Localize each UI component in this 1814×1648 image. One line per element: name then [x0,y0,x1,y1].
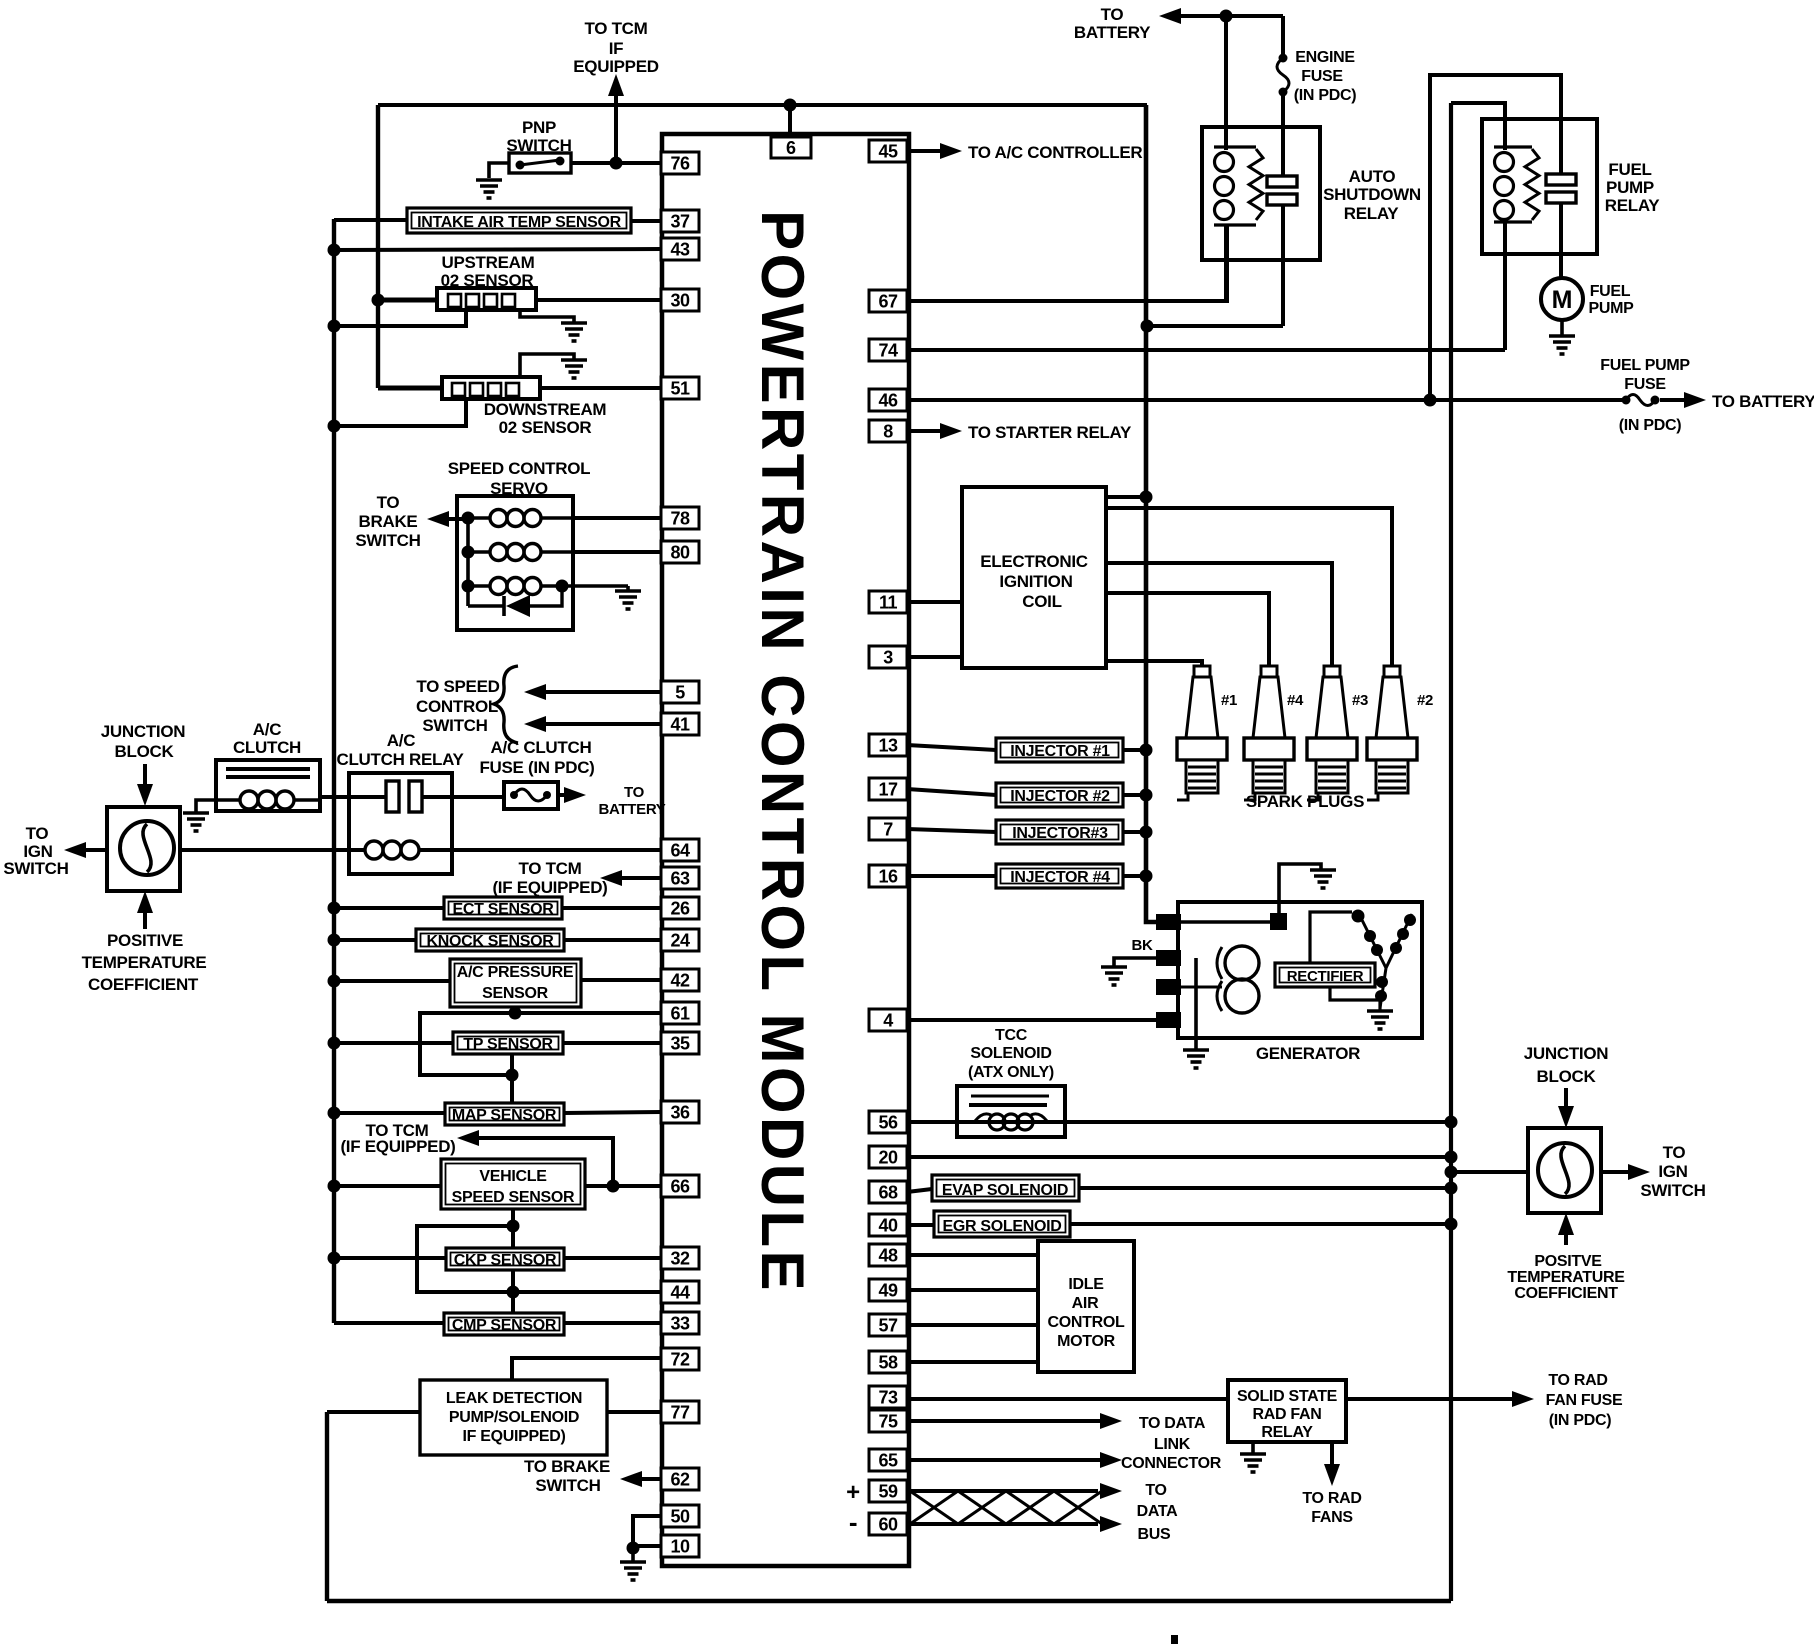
svg-text:62: 62 [670,1470,690,1490]
engine fuse [1277,54,1289,97]
wire CKP to CMP vertical [511,1270,515,1313]
label TO BRAKE SWITCH [355,493,420,550]
svg-text:POWERTRAIN CONTROL MODULE: POWERTRAIN CONTROL MODULE [749,210,816,1294]
svg-text:46: 46 [878,391,898,411]
svg-text:AUTO: AUTO [1349,167,1396,186]
PCM pin 16 [869,865,907,887]
PCM pin 72 [661,1348,699,1370]
svg-text:3: 3 [883,648,893,668]
wire A/C pressure to bus [328,975,451,988]
wire to speed control switch (pin 5) [524,684,661,700]
PCM pin 61 [661,1002,699,1024]
svg-text:UPSTREAM: UPSTREAM [442,253,535,272]
label TO A/C CONTROLLER [968,143,1142,162]
svg-text:FANS: FANS [1311,1509,1353,1526]
node 56/ign bus junction [1445,1116,1458,1129]
PCM pin 80 [661,541,699,563]
wire pin 75 to data link connector [907,1413,1122,1429]
wire pins 50/10 to ground [633,1516,661,1548]
label #1 [1221,692,1237,709]
PCM pin 65 [869,1449,907,1471]
PCM pin 43 [661,238,699,260]
wire injector #2 to bus [1123,789,1153,802]
label TO BRAKE SWITCH at pin 62 [524,1457,610,1495]
PCM pin 30 [661,289,699,311]
svg-text:MAP SENSOR: MAP SENSOR [452,1107,557,1124]
ground (BK) [1101,967,1127,985]
svg-text:65: 65 [878,1451,898,1471]
svg-text:POSITIVE: POSITIVE [107,931,183,950]
node pin43/bus junction [328,244,341,257]
ground (rad fan relay) [1240,1454,1266,1472]
svg-text:58: 58 [878,1353,898,1373]
label POSITVE TEMPERATURE COEFFICIENT (right) [1507,1253,1625,1302]
label (IN PDC) right [1619,417,1681,434]
svg-text:37: 37 [670,212,690,232]
svg-text:50: 50 [670,1507,690,1527]
svg-text:ECT SENSOR: ECT SENSOR [452,901,554,918]
EGR solenoid [934,1211,1070,1237]
wire upstream O2 to supply [378,298,437,303]
wire knock to pin 24 [564,938,661,942]
wire pin 72 to leak detection pump [512,1358,661,1380]
label FUEL PUMP [1588,283,1634,317]
svg-text:41: 41 [670,715,690,735]
wire junction block to ign switch (right) [1601,1164,1650,1180]
svg-text:SOLID STATE: SOLID STATE [1237,1388,1338,1405]
label DOWNSTREAM 02 SENSOR [484,400,607,437]
PCM pin 33 [661,1312,699,1334]
svg-text:73: 73 [878,1388,898,1408]
svg-text:BLOCK: BLOCK [1537,1067,1597,1086]
svg-text:LEAK DETECTION: LEAK DETECTION [446,1390,582,1407]
wire A/C pressure to pin 42 [581,978,661,982]
svg-text:72: 72 [670,1350,690,1370]
A/C clutch relay contacts [386,781,422,812]
wire EGR to ign bus [1070,1222,1451,1226]
speed control servo box [457,496,573,630]
svg-text:DATA: DATA [1137,1503,1179,1520]
wire pin 74 to fuel pump relay coil [907,348,1505,352]
PCM pin 8 [869,420,907,442]
node junction-block feed [1445,1166,1458,1179]
svg-text:CONTROL: CONTROL [1047,1314,1125,1331]
svg-text:SWITCH: SWITCH [535,1476,600,1495]
wire ignition coil to ASD bus [1106,495,1146,499]
svg-text:TO: TO [1663,1143,1686,1162]
wire ign bus to junction block (right) [1451,1170,1528,1174]
wire ECT to pin 26 [562,906,661,910]
PCM pin 75 [869,1410,907,1432]
svg-text:BATTERY: BATTERY [598,801,665,818]
svg-text:RECTIFIER: RECTIFIER [1287,968,1364,985]
wire pin 3 to ignition coil [907,655,962,659]
svg-text:45: 45 [878,142,898,162]
wire injector #4 to bus [1123,870,1153,883]
svg-text:SPEED CONTROL: SPEED CONTROL [448,459,591,478]
svg-text:74: 74 [878,341,898,361]
node A/C pressure junction on 61 line [509,1007,522,1020]
PCM pin 62 [661,1468,699,1490]
svg-text:JUNCTION: JUNCTION [1524,1044,1609,1063]
wire battery to ASD coil [1224,16,1228,150]
label TO TCM IF EQUIPPED (top) [573,19,658,76]
svg-text:61: 61 [670,1004,690,1024]
PCM module body (POWERTRAIN CONTROL MODULE) [662,134,909,1566]
svg-text:7: 7 [883,820,893,840]
A/C clutch fuse [504,782,558,809]
wire rectifier to ground [1330,987,1380,1010]
svg-text:SWITCH: SWITCH [422,716,487,735]
node data bus - polarity [849,1507,857,1537]
injector #3 [996,820,1123,844]
wire fuse to battery arrow [558,787,586,803]
node battery/ASD junction [1220,10,1233,23]
label A/C CLUTCH RELAY [336,731,464,769]
svg-text:#2: #2 [1417,692,1433,709]
svg-text:11: 11 [879,593,898,613]
PCM pin 59 [869,1480,907,1502]
label ELECTRONIC IGNITION COIL [980,552,1088,611]
wire upstream O2 supply vertical [376,105,380,388]
PCM pin 7 [869,818,907,840]
svg-text:TO TCM: TO TCM [584,19,647,38]
wire pin to injector #3 [907,829,996,832]
svg-text:BRAKE: BRAKE [359,512,418,531]
wire pin to injector #2 [907,789,996,795]
node upstream pin2/bus junction [328,320,341,333]
A/C clutch [216,760,320,811]
wire coil to spark plug 4 [1106,593,1269,666]
wire pin to injector #1 [907,745,996,750]
svg-text:77: 77 [670,1403,690,1423]
svg-text:ELECTRONIC: ELECTRONIC [980,552,1088,571]
wire battery line to fuel pump relay contact [1430,75,1561,400]
PNP switch [509,153,571,173]
label TO DATA LINK CONNECTOR [1121,1415,1222,1472]
wire CMP to bus [334,1321,444,1325]
svg-text:02 SENSOR: 02 SENSOR [499,418,592,437]
CMP sensor [444,1313,564,1335]
svg-text:PUMP: PUMP [1606,178,1654,197]
PCM pin 13 [869,734,907,756]
svg-text:PUMP: PUMP [1588,300,1634,317]
EVAP solenoid [932,1175,1079,1201]
svg-text:EGR SOLENOID: EGR SOLENOID [942,1218,1061,1235]
svg-text:PUMP/SOLENOID: PUMP/SOLENOID [449,1409,579,1426]
PCM pin 63 [661,867,699,889]
svg-text:TCC: TCC [995,1027,1028,1044]
svg-text:33: 33 [670,1314,690,1334]
svg-text:EVAP SOLENOID: EVAP SOLENOID [942,1182,1068,1199]
ground (downstream O2) [561,360,587,378]
wire pin 4 to generator [907,1018,1157,1022]
wire upstream O2 to ground [520,310,574,322]
svg-text:SWITCH: SWITCH [3,859,68,878]
wire injector #1 to bus [1123,744,1153,757]
PCM pin 42 [661,969,699,991]
wire downstream O2 to ground [520,354,574,377]
wire fuel pump to ground [1560,320,1564,335]
injector #4 [996,864,1123,888]
servo diode [468,586,562,617]
node upstream O2 junction [372,294,385,307]
wire pin 56 to TCC and ign bus [907,1120,1451,1124]
svg-text:TO: TO [26,824,49,843]
svg-text:GENERATOR: GENERATOR [1256,1044,1360,1063]
label POSITIVE TEMPERATURE COEFFICIENT (left) [82,931,207,994]
label TCC SOLENOID (ATX ONLY) [968,1027,1054,1081]
PCM pin 76 [661,152,699,174]
node PNP junction at pin 76 [610,157,623,170]
wire pin 8 to starter relay [907,423,962,439]
svg-text:SENSOR: SENSOR [482,985,549,1002]
label #4 [1287,692,1304,709]
wire pin 65 to data link connector [907,1452,1122,1468]
svg-text:(IF EQUIPPED): (IF EQUIPPED) [340,1137,455,1156]
wire TP to MAP vertical [510,1054,514,1104]
TP sensor [453,1032,563,1054]
svg-text:TO RAD: TO RAD [1548,1372,1607,1389]
ground (PNP switch) [476,180,502,198]
PCM pin 77 [661,1401,699,1423]
svg-text:A/C: A/C [253,720,281,739]
wire TP to pin 35 [563,1041,661,1045]
label TO DATA BUS [1137,1482,1179,1543]
PCM pin 6 (top) [771,137,811,158]
node TP/61 junction [506,1069,519,1082]
node VSS bottom junction [507,1220,520,1233]
ECT sensor [444,897,562,919]
svg-text:CLUTCH: CLUTCH [233,738,301,757]
PCM pin 45 [869,140,907,162]
svg-text:COEFFICIENT: COEFFICIENT [1514,1285,1618,1302]
node TCM/66 junction [607,1180,620,1193]
junction block (left) [107,807,180,891]
wire pin 61 net [420,1013,661,1075]
node ASD return junction [1141,320,1154,333]
generator stator windings [1362,914,1416,1008]
PCM pin 68 [869,1181,907,1203]
label A/C CLUTCH [233,720,301,757]
wire pin 57 to IAC [907,1323,1038,1327]
wire leak detection to outer loop [327,1410,420,1414]
label JUNCTION BLOCK (left) [101,722,186,761]
wire pin 20 to ign bus [907,1155,1451,1159]
wire servo coil1 to pin 78 [573,516,661,520]
svg-text:35: 35 [670,1034,690,1054]
PCM pin 49 [869,1279,907,1301]
PCM pin 35 [661,1032,699,1054]
wire leak detection to pin 77 [607,1410,661,1414]
svg-text:BLOCK: BLOCK [115,742,175,761]
node 20/ign bus junction [1445,1151,1458,1164]
label ENGINE FUSE (IN PDC) [1294,49,1356,104]
PCM pin 67 [869,290,907,312]
svg-text:17: 17 [878,780,898,800]
wire pin 49 to IAC [907,1288,1038,1292]
generator box [1178,902,1422,1038]
PCM pin 58 [869,1351,907,1373]
svg-text:TO: TO [624,784,645,801]
svg-text:+: + [846,1479,860,1506]
svg-text:SHUTDOWN: SHUTDOWN [1323,185,1421,204]
wire downstream O2 pin2 to bus [334,399,466,426]
wire MAP to bus [328,1107,446,1120]
node coil/bus junction [1140,491,1153,504]
node battery-line junction [1424,394,1437,407]
svg-text:-: - [849,1507,857,1537]
svg-text:BUS: BUS [1138,1526,1172,1543]
generator connector pins [1157,915,1180,1027]
spark plug #3 [1307,666,1357,800]
svg-text:56: 56 [878,1113,898,1133]
wire downstream O2 to supply [378,386,442,391]
svg-text:AIR: AIR [1072,1295,1099,1312]
label A/C CLUTCH FUSE (IN PDC) [479,738,594,777]
svg-text:76: 76 [670,154,690,174]
wire ASD contact return to bus [1147,324,1283,328]
wire VSS to CKP vertical [511,1209,515,1248]
wire intake sensor to pin 37 [631,219,661,223]
svg-text:51: 51 [670,379,690,399]
svg-text:IF EQUIPPED): IF EQUIPPED) [462,1428,565,1445]
label TO RAD FANS [1302,1490,1361,1526]
ground (A/C clutch) [183,813,209,831]
wire BK to ground [1114,958,1157,966]
wire ASD output bus (vertical) [1146,105,1157,922]
svg-text:67: 67 [878,292,898,312]
label TO SPEED CONTROL SWITCH [416,666,518,743]
svg-text:5: 5 [675,683,685,703]
svg-text:FUSE (IN PDC): FUSE (IN PDC) [479,758,594,777]
svg-text:20: 20 [878,1148,898,1168]
spark plug #4 [1244,666,1294,800]
wire pin 58 to IAC [907,1360,1038,1364]
wire pin 43 to left bus [334,249,661,250]
ground (servo) [615,591,641,609]
servo coil rail [466,518,470,606]
wire downstream O2 to pin 51 [540,386,661,390]
label GENERATOR [1256,1044,1360,1063]
svg-text:IGNITION: IGNITION [999,572,1072,591]
injector #1 [996,738,1123,762]
downstream O2 sensor connector [442,377,540,399]
svg-text:FAN FUSE: FAN FUSE [1546,1392,1623,1409]
PCM pin 73 [869,1386,907,1408]
svg-text:A/C: A/C [387,731,415,750]
wire knock to bus [328,934,417,947]
PCM pin 36 [661,1101,699,1123]
svg-text:(IN PDC): (IN PDC) [1619,417,1681,434]
svg-text:FUEL: FUEL [1608,160,1651,179]
wire junction block to A/C clutch relay coil [180,848,365,852]
wire coil to spark plug 3 [1106,563,1332,666]
PCM pin 37 [661,210,699,232]
svg-text:30: 30 [670,291,690,311]
svg-text:FUEL PUMP: FUEL PUMP [1600,357,1690,374]
label TO TCM (IF EQUIPPED) at pin 66 [340,1121,455,1156]
svg-text:24: 24 [670,931,690,951]
wire pin 62 to brake switch [620,1471,661,1487]
svg-text:(IN PDC): (IN PDC) [1549,1412,1611,1429]
wire injector #3 to bus [1123,826,1153,839]
svg-text:CONTROL: CONTROL [416,697,498,716]
PCM pin 74 [869,339,907,361]
svg-text:57: 57 [878,1316,898,1336]
label TO BATTERY (top) [1074,5,1151,42]
svg-text:8: 8 [883,422,893,442]
svg-text:COIL: COIL [1022,592,1061,611]
svg-text:A/C CLUTCH: A/C CLUTCH [491,738,592,757]
injector #2 [996,783,1123,807]
wire intake sensor to left bus [334,218,407,222]
node 44/CMP junction [507,1286,520,1299]
svg-text:#1: #1 [1221,692,1237,709]
svg-text:42: 42 [670,971,690,991]
scan artifact mark [1171,1635,1178,1644]
servo coil 2 [468,544,573,561]
svg-text:INJECTOR #2: INJECTOR #2 [1010,788,1110,805]
wire A/C clutch to relay contact [320,795,386,799]
svg-text:(IN PDC): (IN PDC) [1294,87,1356,104]
PCM pin 41 [661,713,699,735]
svg-text:TO STARTER RELAY: TO STARTER RELAY [968,423,1132,442]
svg-text:INJECTOR#3: INJECTOR#3 [1012,825,1108,842]
svg-text:TEMPERATURE: TEMPERATURE [82,953,207,972]
label TO IGN SWITCH (right) [1640,1143,1705,1200]
PCM pin 3 [869,646,907,668]
svg-text:TO: TO [1145,1482,1166,1499]
label #3 [1352,692,1368,709]
label FUEL PUMP FUSE [1600,357,1690,393]
ASD relay contacts [1267,176,1297,326]
servo coil 1 [468,510,573,527]
svg-text:16: 16 [878,867,898,887]
svg-text:SWITCH: SWITCH [1640,1181,1705,1200]
wire ECT to bus [328,902,445,915]
wire pin 11 to ignition coil [907,600,962,604]
ground (generator bottom) [1183,1050,1209,1068]
ground (fuel pump) [1549,336,1575,354]
svg-text:ENGINE: ENGINE [1295,49,1355,66]
svg-text:KNOCK SENSOR: KNOCK SENSOR [426,933,554,950]
CKP sensor [446,1248,564,1270]
svg-text:36: 36 [670,1103,690,1123]
ground (rectifier) [1367,1011,1393,1029]
fuel pump motor M1 [1541,278,1583,320]
wire PTC arrow (right) [1558,1213,1574,1245]
svg-text:LINK: LINK [1154,1436,1191,1453]
wire junction block to ign switch [64,842,107,858]
wire pin 63 to TCM [600,870,661,886]
svg-text:TO RAD: TO RAD [1302,1490,1361,1507]
svg-text:CKP SENSOR: CKP SENSOR [454,1252,557,1269]
wire data bus (twisted pair) [907,1483,1122,1532]
wire CMP to pin 33 [564,1321,661,1325]
PCM pin 24 [661,929,699,951]
node pin6 junction [784,99,797,139]
svg-text:78: 78 [670,509,690,529]
wire PTC arrow (left) [137,891,153,929]
svg-text:TO BRAKE: TO BRAKE [524,1457,610,1476]
svg-text:66: 66 [670,1177,690,1197]
svg-text:43: 43 [670,240,690,260]
svg-text:75: 75 [878,1412,898,1432]
svg-text:VEHICLE: VEHICLE [479,1168,547,1185]
fuel pump fuse [1622,395,1660,406]
solid state rad fan relay [1228,1380,1346,1442]
